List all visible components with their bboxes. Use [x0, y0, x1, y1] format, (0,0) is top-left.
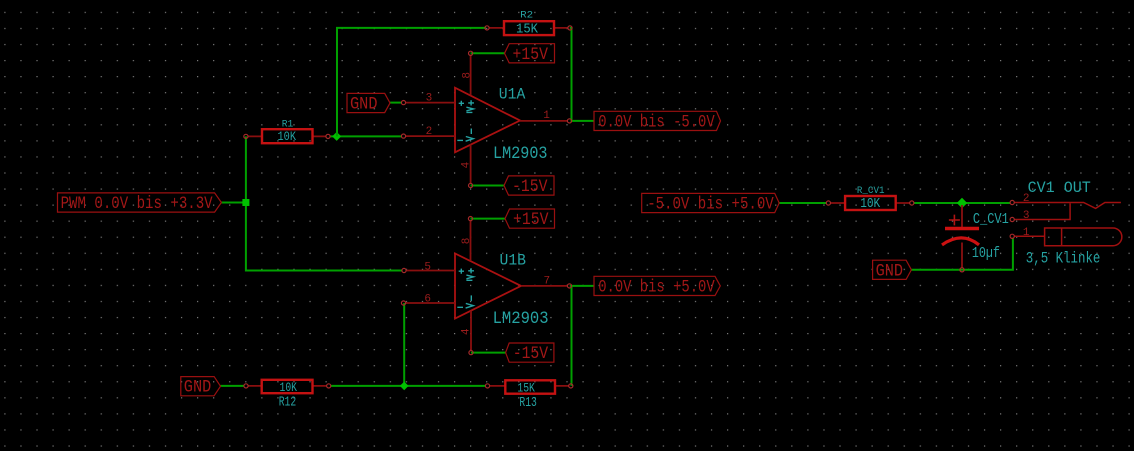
power label +15V at U1A	[505, 44, 555, 65]
svg-text:LM2903: LM2903	[493, 309, 549, 329]
svg-text:+15V: +15V	[513, 210, 549, 230]
svg-text:15K: 15K	[517, 380, 535, 395]
svg-text:8: 8	[461, 238, 473, 245]
wire -5.0V bis +5.0V label to R_CV1	[779, 202, 826, 204]
wire U1A pin8 to +15V	[471, 52, 505, 54]
pin 8 of U1B V+	[461, 217, 473, 262]
svg-text:U1B: U1B	[500, 251, 527, 269]
pin 2 of U1A	[401, 126, 455, 138]
pin 4 of U1A V-	[460, 144, 472, 187]
op-amp U1B minus input marks	[457, 295, 473, 308]
svg-text:10K: 10K	[860, 197, 881, 212]
svg-text:2: 2	[1023, 193, 1030, 205]
connector pin 2 tip contact	[1010, 193, 1121, 209]
svg-text:15K: 15K	[516, 22, 539, 37]
svg-text:-5.0V bis +5.0V: -5.0V bis +5.0V	[647, 195, 774, 215]
op-amp U1B	[455, 251, 549, 329]
label GND at U1A pin3	[347, 93, 390, 114]
svg-text:4: 4	[461, 328, 473, 335]
capacitor C_CV1	[942, 205, 1009, 272]
svg-text:2: 2	[426, 126, 433, 138]
connector pin 3 switch contact	[1010, 203, 1070, 222]
svg-text:R13: R13	[519, 395, 537, 411]
svg-text:10K: 10K	[278, 130, 297, 144]
svg-text:6: 6	[424, 294, 431, 306]
junction divider node	[400, 382, 409, 391]
svg-text:0.0V bis -5.0V: 0.0V bis -5.0V	[598, 112, 715, 132]
power label -15V at U1A	[504, 176, 554, 197]
svg-text:3,5 Klinke: 3,5 Klinke	[1026, 250, 1101, 268]
resistor R2	[485, 9, 572, 37]
svg-text:R_CV1: R_CV1	[857, 185, 885, 197]
label 0.0V bis +5.0V	[594, 276, 720, 297]
junction C_CV1 top node	[957, 198, 967, 208]
pin 8 of U1A V+	[462, 51, 474, 95]
pin 6 of U1B	[401, 294, 455, 306]
svg-text:0.0V bis +5.0V: 0.0V bis +5.0V	[598, 277, 715, 297]
power label -15V at U1B	[506, 343, 554, 364]
svg-text:8: 8	[462, 72, 474, 79]
label GND at C_CV1	[873, 260, 912, 281]
svg-text:R1: R1	[282, 118, 294, 130]
wire R12 right to R13 left	[331, 385, 485, 387]
pin 7 of U1B output	[521, 275, 572, 288]
svg-text:-15V: -15V	[513, 344, 549, 364]
pin 3 of U1A	[401, 93, 455, 105]
svg-text:7: 7	[543, 275, 550, 287]
wire U1A pin4 to -15V	[471, 185, 504, 187]
svg-text:+15V: +15V	[513, 45, 549, 65]
wire U1B pin8 to +15V	[471, 218, 506, 220]
wire U1B pin6 down to divider node	[403, 303, 405, 386]
svg-text:CV1 OUT: CV1 OUT	[1028, 179, 1091, 197]
svg-text:3: 3	[1023, 210, 1030, 222]
op-amp U1B plus input marks	[459, 268, 474, 280]
svg-text:GND: GND	[350, 95, 378, 115]
svg-text:R2: R2	[520, 9, 533, 21]
pin 5 of U1B	[402, 262, 455, 274]
svg-text:3: 3	[426, 93, 433, 105]
connector CV1 OUT jack	[1026, 179, 1101, 268]
svg-text:C_CV1: C_CV1	[973, 212, 1009, 228]
wire R_CV1 to connector pin2	[914, 202, 1010, 204]
junction R1 output node	[332, 132, 341, 141]
wire R1 output node to U1A pin2	[330, 135, 401, 137]
wire PWM label to junction	[221, 202, 246, 204]
label 0.0V bis -5.0V	[594, 111, 721, 132]
svg-text:R12: R12	[279, 394, 297, 410]
resistor R1	[244, 118, 330, 144]
op-amp U1A	[455, 86, 548, 164]
svg-text:10K: 10K	[280, 380, 298, 395]
svg-text:5: 5	[424, 262, 431, 274]
label GND at R12	[181, 377, 221, 398]
svg-text:GND: GND	[876, 261, 904, 281]
svg-text:4: 4	[460, 161, 472, 168]
op-amp U1A minus input marks	[457, 129, 473, 142]
wire U1B output node to label and down to R13	[570, 286, 594, 386]
wire GND label to U1A pin3	[390, 102, 401, 104]
wire GND label to R12 left	[221, 385, 244, 387]
label PWM 0.0V bis +3.3V	[58, 193, 222, 214]
resistor R12	[244, 380, 331, 411]
svg-text:GND: GND	[184, 378, 212, 398]
svg-text:1: 1	[1023, 227, 1030, 239]
resistor R_CV1	[826, 185, 914, 212]
svg-text:-15V: -15V	[512, 177, 548, 197]
pin 4 of U1B V-	[461, 311, 473, 355]
label -5.0V bis +5.0V	[642, 193, 780, 214]
wire feedback up to R2 left	[337, 28, 486, 136]
wire PWM net vertical trunk from R1 left pin down to U1B pin5	[246, 136, 402, 270]
svg-text:PWM 0.0V bis +3.3V: PWM 0.0V bis +3.3V	[61, 194, 213, 214]
wire R2 right down to U1A output node	[570, 28, 594, 121]
pin 1 of U1A output	[520, 110, 572, 123]
connector pin 1 sleeve	[1010, 227, 1122, 246]
svg-text:LM2903: LM2903	[493, 144, 548, 164]
svg-text:1: 1	[543, 110, 550, 122]
junction PWM node	[242, 199, 249, 206]
wire U1B pin4 to -15V	[471, 352, 506, 354]
wire GND to C_CV1 bottom and up to connector pin1	[911, 239, 1013, 270]
resistor R13	[485, 380, 573, 411]
svg-text:10µf: 10µf	[972, 246, 1000, 262]
power label +15V at U1B	[505, 209, 555, 230]
op-amp U1A plus input marks	[459, 100, 474, 112]
svg-text:U1A: U1A	[499, 86, 526, 104]
